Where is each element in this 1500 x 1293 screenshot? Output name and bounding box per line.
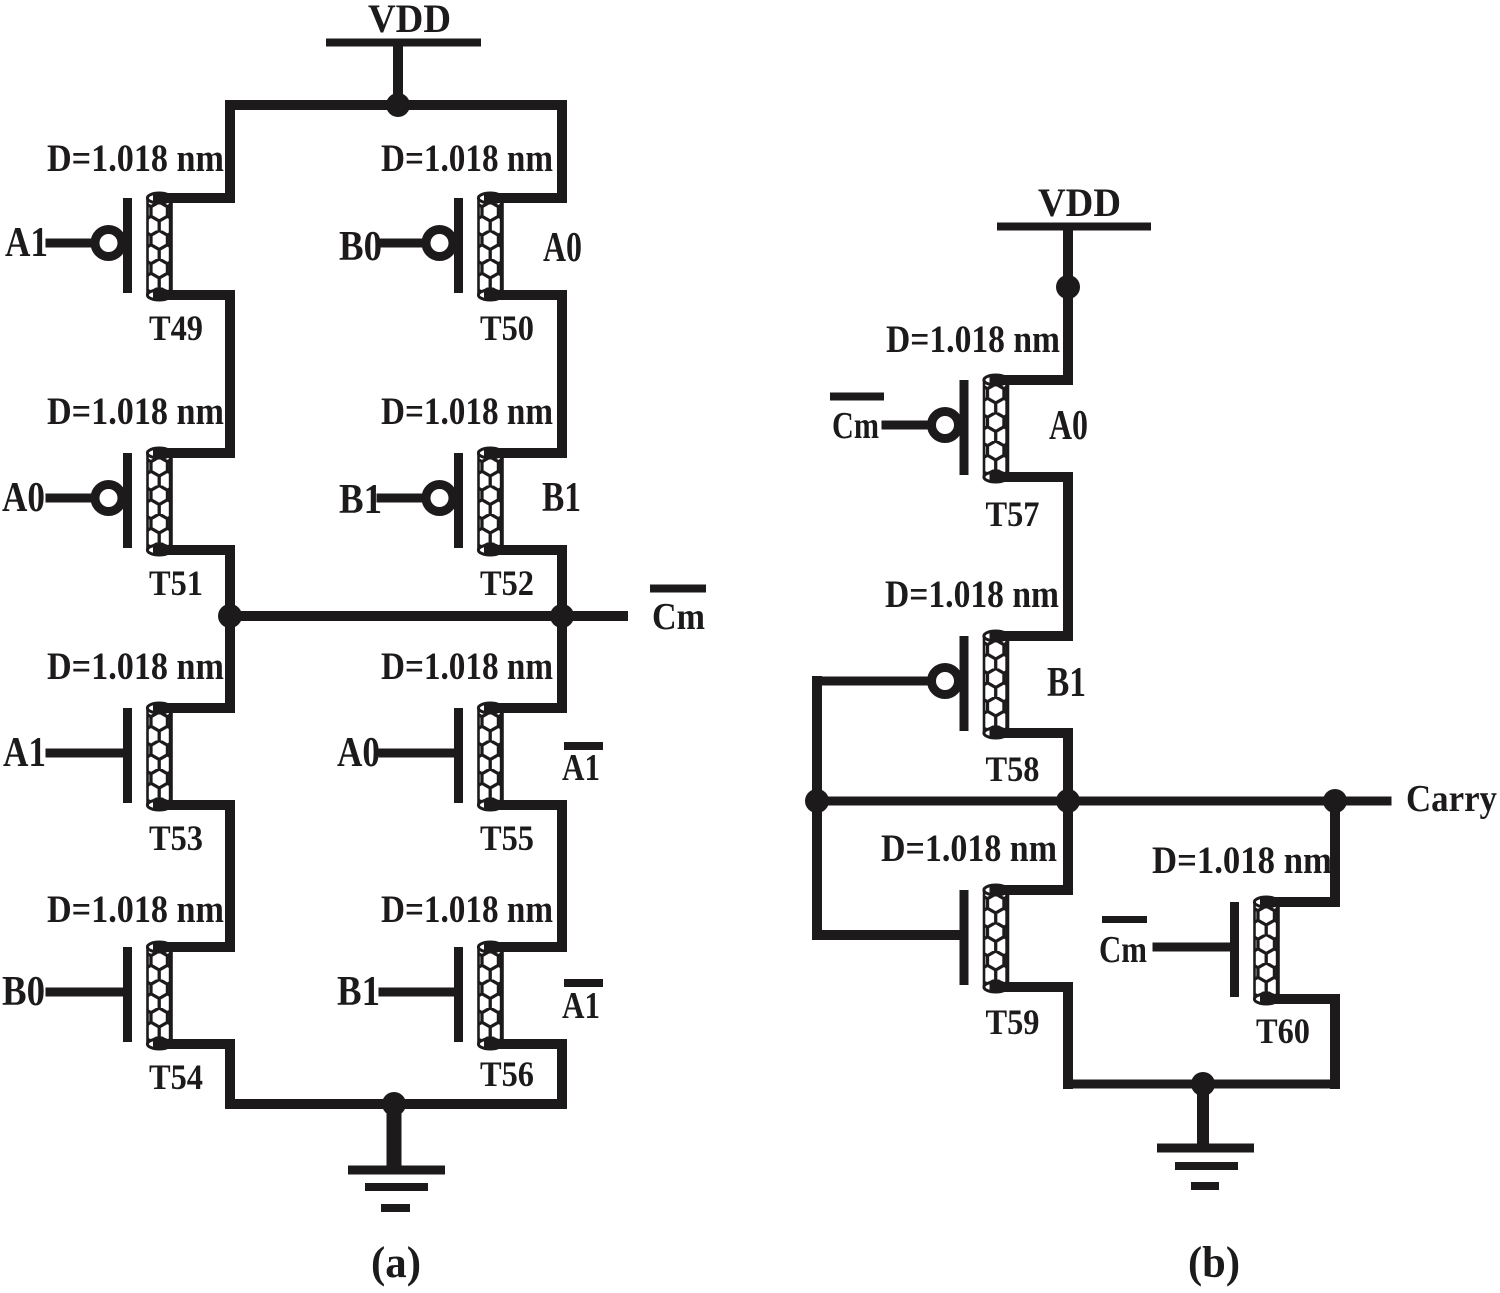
svg-text:D=1.018 nm: D=1.018 nm [47, 137, 224, 180]
transistor T49 (PMOS CNTFET) [95, 193, 230, 348]
node channel label A1-bar (T56) [562, 983, 603, 1027]
wire right column VDD to T50 drain [557, 105, 567, 198]
svg-text:(a): (a) [371, 1238, 421, 1287]
transistor T55 (NMOS CNTFET) [454, 703, 562, 858]
ground symbol (b) [1157, 1084, 1254, 1186]
svg-text:A0: A0 [337, 730, 380, 776]
wire T50 source to T52 drain [557, 295, 567, 453]
svg-text:B1: B1 [339, 477, 382, 523]
svg-text:D=1.018 nm: D=1.018 nm [47, 390, 224, 433]
node junction dot middle (Carry net) [1056, 789, 1080, 813]
wire gate lead of T56 [383, 988, 454, 997]
svg-text:T51: T51 [149, 563, 203, 603]
transistor T59 (NMOS CNTFET) [960, 885, 1069, 1042]
wire gate lead of T50 [381, 239, 423, 248]
wire gate lead of T60 [1157, 943, 1232, 952]
svg-text:(b): (b) [1188, 1238, 1240, 1287]
transistor T57 (PMOS CNTFET) [932, 375, 1069, 534]
wire T58 gate feedback drop [812, 681, 822, 935]
wire T60 source to ground rail (b) [1330, 999, 1340, 1084]
svg-text:T58: T58 [986, 749, 1040, 789]
svg-text:D=1.018 nm: D=1.018 nm [881, 827, 1057, 870]
node junction dot right (Cm net) [550, 604, 574, 628]
svg-text:T59: T59 [986, 1002, 1040, 1042]
svg-text:B0: B0 [2, 969, 45, 1015]
svg-text:T57: T57 [986, 494, 1040, 534]
svg-text:B0: B0 [339, 224, 382, 270]
node junction dot right (Carry net) [1323, 789, 1347, 813]
node junction dot left (Cm net) [218, 604, 242, 628]
wire gate lead of T55 [383, 749, 454, 758]
wire T55 source to T56 drain [557, 805, 567, 947]
wire top rail (a) [230, 100, 562, 110]
svg-text:D=1.018 nm: D=1.018 nm [47, 888, 224, 931]
transistor T52 (PMOS CNTFET) [426, 448, 562, 603]
svg-text:T54: T54 [149, 1057, 203, 1097]
wire ground rail (a) [230, 1099, 562, 1109]
node VDD junction dot (a) [386, 93, 410, 117]
wire gate lead of T52 [381, 494, 423, 503]
svg-text:VDD: VDD [1038, 180, 1121, 225]
wire gate lead of T54 [50, 988, 123, 997]
wire left column VDD to T49 drain [225, 105, 235, 198]
node input label Cm-bar (T57 gate) [830, 397, 884, 448]
svg-text:D=1.018 nm: D=1.018 nm [1152, 839, 1332, 882]
svg-text:VDD: VDD [368, 0, 451, 41]
svg-text:A0: A0 [2, 475, 45, 521]
svg-text:T52: T52 [480, 563, 534, 603]
svg-text:B1: B1 [1047, 660, 1086, 706]
wire T51 source to Cm node to T53 drain [225, 550, 235, 708]
svg-text:A1: A1 [562, 747, 600, 789]
wire VDD stub (b) [1063, 230, 1073, 380]
node channel label A1-bar (T55) [562, 746, 603, 789]
transistor T56 (NMOS CNTFET) [454, 942, 562, 1094]
power symbol VDD (a) [326, 0, 481, 43]
transistor T51 (PMOS CNTFET) [95, 448, 230, 603]
svg-text:T55: T55 [480, 818, 534, 858]
transistor T58 (PMOS CNTFET) [932, 631, 1069, 789]
wire Carry rail to T60 drain [1330, 801, 1340, 902]
transistor T60 (NMOS CNTFET) [1230, 897, 1335, 1051]
transistor T50 (PMOS CNTFET) [426, 193, 562, 348]
svg-text:A1: A1 [5, 220, 48, 266]
node ground junction dot (a) [382, 1092, 406, 1116]
svg-text:T53: T53 [149, 818, 203, 858]
svg-text:T60: T60 [1256, 1011, 1310, 1051]
svg-text:A1: A1 [562, 985, 600, 1027]
wire T58 source to Carry rail [1063, 733, 1073, 801]
wire VDD stub (a) [393, 46, 403, 105]
svg-text:D=1.018 nm: D=1.018 nm [886, 318, 1060, 361]
node VDD junction dot (b) [1056, 275, 1080, 299]
svg-text:D=1.018 nm: D=1.018 nm [381, 888, 553, 931]
ground symbol (a) [348, 1104, 445, 1208]
wire T53 source to T54 drain [225, 805, 235, 947]
svg-text:D=1.018 nm: D=1.018 nm [381, 137, 553, 180]
wire gate lead of T51 [50, 494, 92, 503]
wire gate lead of T49 [50, 239, 92, 248]
svg-text:D=1.018 nm: D=1.018 nm [47, 645, 224, 688]
node input label Cm-bar (T60 gate) [1099, 920, 1147, 972]
svg-text:Cm: Cm [832, 405, 879, 447]
wire ground rail (b) [1068, 1080, 1335, 1089]
svg-text:D=1.018 nm: D=1.018 nm [381, 645, 553, 688]
wire T56 source to ground rail [557, 1044, 567, 1104]
wire gate lead of T59 [817, 930, 962, 940]
svg-text:Carry: Carry [1406, 778, 1497, 820]
svg-text:B1: B1 [337, 969, 380, 1015]
node junction dot left (Carry net) [805, 789, 829, 813]
svg-text:A0: A0 [543, 225, 582, 271]
node output label Cm-bar [650, 589, 706, 639]
svg-text:A1: A1 [3, 730, 46, 776]
wire T59 source to ground rail (b) [1063, 987, 1073, 1084]
wire gate lead of T57 [886, 421, 928, 430]
svg-text:T49: T49 [149, 308, 203, 348]
power symbol VDD (b) [997, 180, 1151, 227]
svg-text:A0: A0 [1049, 403, 1088, 449]
wire T49 source to T51 drain [225, 295, 235, 453]
svg-text:D=1.018 nm: D=1.018 nm [885, 573, 1059, 616]
svg-text:B1: B1 [542, 475, 581, 521]
wire gate lead of T58 [817, 677, 928, 686]
wire T57 source to T58 drain [1063, 477, 1073, 636]
svg-text:D=1.018 nm: D=1.018 nm [381, 390, 553, 433]
wire Carry rail [813, 797, 1388, 806]
wire gate lead of T53 [50, 749, 123, 758]
wire T52 source to Cm node to T55 drain [557, 550, 567, 708]
wire Cm output line [230, 611, 623, 621]
transistor T53 (NMOS CNTFET) [123, 703, 230, 858]
wire T54 source to ground rail [225, 1044, 235, 1104]
svg-text:Cm: Cm [1099, 929, 1147, 971]
transistor T54 (NMOS CNTFET) [123, 942, 230, 1097]
node ground junction dot (b) [1191, 1072, 1215, 1096]
svg-text:Cm: Cm [652, 596, 705, 638]
wire Carry rail to T59 drain [1063, 801, 1073, 890]
svg-text:T56: T56 [480, 1054, 534, 1094]
svg-text:T50: T50 [480, 308, 534, 348]
